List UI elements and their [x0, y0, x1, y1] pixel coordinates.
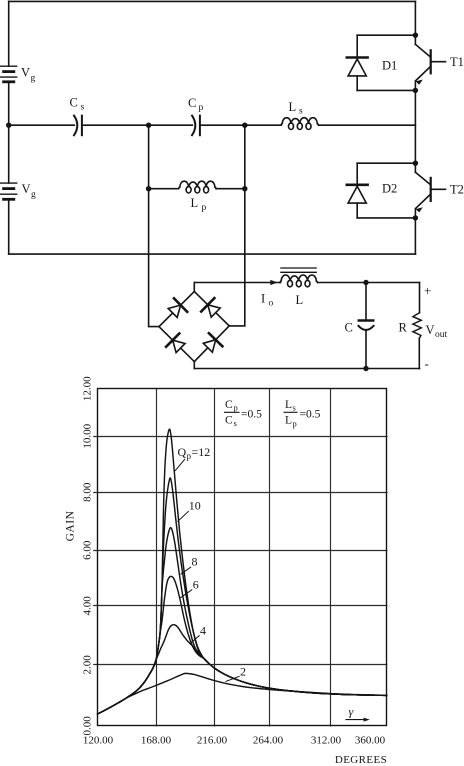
- label D2: [382, 182, 397, 196]
- svg-text:L: L: [191, 196, 199, 210]
- svg-text:10: 10: [189, 499, 201, 513]
- node Lp-left junction: [146, 186, 151, 191]
- svg-text:12.00: 12.00: [82, 376, 94, 401]
- label 8: [181, 555, 198, 575]
- curve Qp=8: [98, 528, 387, 714]
- label DEGREES: [335, 754, 387, 766]
- svg-text:p: p: [199, 103, 204, 113]
- wire D2 cathode lead: [356, 163, 358, 183]
- wire output bottom: [194, 368, 419, 370]
- svg-text:C: C: [188, 96, 196, 110]
- svg-text:s: s: [299, 107, 303, 117]
- label C: [345, 321, 353, 335]
- capacitor C: [359, 321, 374, 330]
- label T2: [450, 183, 464, 197]
- svg-text:8.00: 8.00: [82, 482, 94, 502]
- label T1: [450, 55, 464, 69]
- label plus: [424, 283, 431, 298]
- svg-text:D1: D1: [382, 59, 397, 73]
- node A (left input node): [6, 123, 11, 128]
- wire R top lead: [419, 283, 421, 313]
- wire Vg1 to node A: [8, 83, 10, 125]
- wire Cs to node B: [82, 124, 149, 126]
- label Qp=12: [175, 445, 210, 471]
- legend Cp/Cs = 0.5: [225, 399, 263, 428]
- bridge diode DB1 (left-top): [168, 298, 187, 317]
- label 10: [178, 499, 201, 522]
- wire T1 emitter to T2 collector: [414, 90, 416, 163]
- bridge diode DB3 (bottom-left): [166, 334, 185, 353]
- svg-text:s: s: [81, 103, 85, 113]
- resistor R: [413, 313, 421, 339]
- wire top rail: [9, 0, 416, 2]
- graph plot border: [98, 389, 387, 726]
- wire node A to Cs: [9, 124, 75, 126]
- inductor Ls: [281, 118, 319, 130]
- wire D1 anode lead: [356, 76, 358, 91]
- wire bridge top to Io line: [193, 283, 195, 292]
- wire node B to Cp: [149, 124, 193, 126]
- bridge diode DB4 (bottom-right): [203, 333, 222, 352]
- label D1: [382, 59, 397, 73]
- svg-text:-: -: [425, 356, 429, 371]
- wire bottom rail up to T2 emitter node: [414, 218, 416, 254]
- svg-text:g: g: [31, 74, 36, 84]
- curve Qp=6: [98, 576, 387, 714]
- svg-text:s: s: [293, 403, 296, 413]
- label L: [296, 293, 304, 307]
- label Ls: [289, 100, 304, 117]
- label GAIN: [65, 510, 77, 541]
- label Vg1: [21, 66, 36, 84]
- svg-text:s: s: [234, 418, 237, 428]
- svg-text:L: L: [296, 293, 304, 307]
- svg-text:=0.5: =0.5: [241, 409, 262, 421]
- wire bridge bottom stub: [193, 362, 195, 369]
- svg-text:p: p: [234, 403, 238, 413]
- svg-text:V: V: [21, 66, 30, 80]
- label 6: [180, 578, 199, 599]
- svg-text:312.00: 312.00: [311, 735, 342, 747]
- wire D2 bottom: [357, 217, 415, 219]
- inductor L: [280, 275, 318, 287]
- svg-text:2: 2: [240, 665, 246, 679]
- svg-text:V: V: [22, 182, 31, 196]
- svg-text:R: R: [399, 321, 408, 335]
- svg-text:Q: Q: [178, 445, 187, 459]
- wire D1 bottom: [357, 89, 415, 91]
- wire D2 anode lead: [356, 203, 358, 218]
- svg-text:D2: D2: [382, 182, 397, 196]
- wire R bottom lead: [418, 338, 420, 368]
- curve Qp=2: [98, 673, 387, 714]
- svg-text:4.00: 4.00: [82, 596, 94, 616]
- node Lp-right junction: [242, 186, 247, 191]
- wire D2 top: [357, 162, 415, 164]
- x-axis tick labels: [83, 735, 386, 747]
- svg-text:264.00: 264.00: [253, 735, 284, 747]
- svg-text:out: out: [435, 330, 448, 340]
- svg-text:C: C: [225, 399, 233, 411]
- svg-text:o: o: [269, 299, 274, 309]
- svg-text:γ: γ: [349, 705, 354, 719]
- svg-text:0.00: 0.00: [82, 716, 94, 736]
- node T2 emitter: [413, 215, 418, 220]
- inductor Lp: [179, 181, 217, 193]
- label gamma: [349, 705, 354, 719]
- wire top-right drop: [414, 1, 416, 35]
- svg-text:DEGREES: DEGREES: [335, 754, 387, 766]
- transistor T1: [415, 35, 445, 90]
- wire L to node D: [318, 282, 367, 284]
- battery Vg2: [1, 183, 17, 199]
- label R: [399, 321, 408, 335]
- diode D2: [347, 185, 368, 203]
- capacitor Cp: [192, 116, 200, 136]
- wire C top lead: [365, 283, 367, 320]
- svg-text:T1: T1: [450, 55, 464, 69]
- node T1 collector: [413, 33, 418, 38]
- wire Lp left lead: [149, 188, 179, 190]
- wire node B down to bridge left: [149, 125, 159, 326]
- wire Vg2 to bottom rail: [8, 201, 10, 255]
- wire Io (bridge to L): [194, 282, 280, 284]
- svg-text:168.00: 168.00: [141, 735, 172, 747]
- svg-text:I: I: [261, 292, 265, 306]
- wire D1 cathode lead: [356, 35, 358, 56]
- svg-text:=12: =12: [192, 445, 211, 459]
- svg-text:120.00: 120.00: [83, 735, 114, 747]
- svg-text:L: L: [289, 100, 297, 114]
- arrow Io: [270, 280, 278, 285]
- legend Ls/Lp = 0.5: [284, 399, 321, 429]
- svg-text:10.00: 10.00: [82, 423, 94, 448]
- node D (C top): [363, 280, 368, 285]
- svg-text:p: p: [293, 419, 297, 429]
- transistor T2: [415, 163, 445, 218]
- svg-text:V: V: [426, 323, 435, 337]
- label Vout: [426, 323, 448, 340]
- svg-text:L: L: [285, 399, 292, 411]
- svg-text:+: +: [424, 283, 431, 298]
- inductor L core lines: [281, 268, 316, 272]
- label Lp: [191, 196, 207, 213]
- node C (Cp-Ls junction): [242, 123, 247, 128]
- label 2: [226, 665, 246, 682]
- svg-text:2.00: 2.00: [82, 655, 94, 675]
- wire D1 top: [357, 34, 415, 36]
- label Io: [261, 292, 274, 309]
- svg-text:8: 8: [192, 555, 198, 569]
- curve Qp=10: [98, 478, 387, 714]
- label Cs: [70, 96, 85, 113]
- curve Qp=4: [98, 625, 387, 714]
- bridge diode DB2 (right-top): [201, 298, 220, 317]
- wire node D to R branch: [366, 282, 420, 284]
- wire C bottom lead: [365, 330, 367, 369]
- node T1 emitter: [413, 88, 418, 93]
- node B (Cs-Cp junction): [146, 123, 151, 128]
- svg-text:216.00: 216.00: [197, 735, 228, 747]
- svg-text:=0.5: =0.5: [300, 409, 321, 421]
- svg-text:360.00: 360.00: [355, 735, 386, 747]
- node E (C bottom): [363, 366, 368, 371]
- svg-text:L: L: [285, 415, 292, 427]
- svg-text:6.00: 6.00: [82, 540, 94, 560]
- label minus: [425, 356, 429, 371]
- svg-text:GAIN: GAIN: [65, 510, 77, 541]
- bridge diamond wires: [159, 292, 229, 362]
- wire Cp to node C: [200, 124, 245, 126]
- svg-text:p: p: [202, 203, 207, 213]
- svg-text:6: 6: [193, 578, 199, 592]
- label 4: [191, 624, 207, 644]
- svg-text:C: C: [345, 321, 353, 335]
- wire left top (Vg1 to rail): [8, 1, 10, 66]
- label Vg2: [22, 182, 37, 200]
- curve Qp=12: [98, 429, 387, 714]
- node T2 collector: [413, 161, 418, 166]
- svg-text:4: 4: [200, 624, 206, 638]
- graph gridlines: [94, 389, 387, 726]
- wire Ls to T1-T2 midpoint: [319, 124, 416, 126]
- wire node A to Vg2: [8, 125, 10, 183]
- battery Vg1: [1, 66, 17, 82]
- diode D1: [347, 58, 368, 76]
- arrow gamma: [346, 718, 370, 722]
- svg-text:g: g: [31, 190, 36, 200]
- wire bottom rail: [9, 253, 416, 255]
- label Cp: [188, 96, 204, 113]
- wire node C down to bridge right: [229, 125, 245, 326]
- wire node C to Ls: [245, 124, 281, 126]
- wire Lp right lead: [216, 188, 245, 190]
- capacitor Cs: [74, 116, 82, 136]
- y-axis tick labels: [82, 376, 94, 736]
- svg-text:T2: T2: [450, 183, 464, 197]
- svg-text:C: C: [70, 96, 78, 110]
- svg-text:C: C: [225, 415, 233, 427]
